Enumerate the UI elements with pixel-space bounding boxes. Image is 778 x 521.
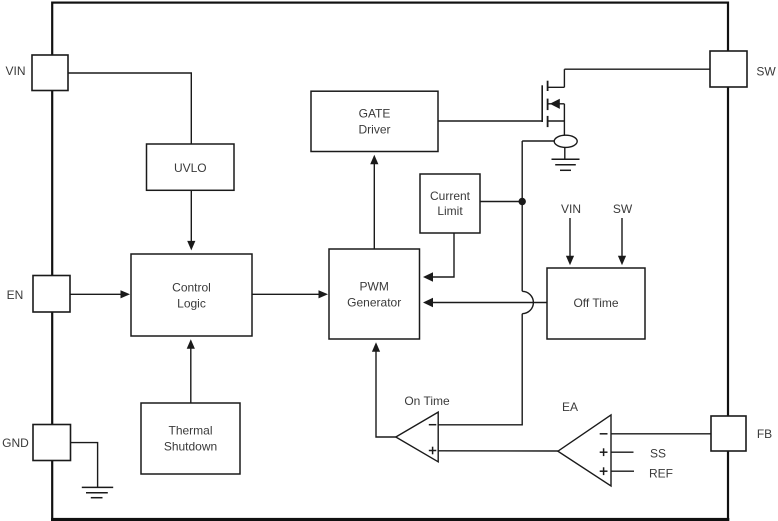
pin EN: [7, 276, 70, 313]
svg-text:EN: EN: [7, 288, 24, 302]
op-amp EA: [558, 415, 611, 486]
wire current source to ground: [564, 147, 566, 159]
svg-text:PWM: PWM: [360, 279, 389, 293]
pin FB: [711, 416, 772, 451]
svg-text:Current: Current: [430, 189, 471, 203]
comparator On Time: [396, 412, 438, 462]
pin VIN: [5, 55, 68, 91]
svg-text:SW: SW: [756, 65, 776, 79]
wire On Time output to PWM Generator: [372, 342, 396, 437]
wire Control Logic to PWM Generator: [252, 290, 328, 298]
block PWM Generator: [329, 249, 420, 339]
svg-text:REF: REF: [649, 467, 673, 481]
svg-text:UVLO: UVLO: [174, 161, 207, 175]
wire SS input: [611, 451, 634, 453]
ground symbol at current source: [552, 159, 580, 170]
svg-text:EA: EA: [562, 400, 578, 414]
wire PWM Generator to GATE Driver: [370, 155, 378, 249]
wire Q1 drain to SW pin: [564, 68, 710, 70]
wire UVLO to Control Logic: [187, 190, 195, 250]
svg-text:VIN: VIN: [561, 202, 581, 216]
svg-text:Shutdown: Shutdown: [164, 440, 217, 454]
wire EA output to On Time plus input: [438, 450, 558, 452]
wire EA minus input to FB pin: [611, 433, 711, 435]
svg-text:On Time: On Time: [404, 394, 450, 408]
block Control Logic: [131, 254, 252, 336]
svg-text:VIN: VIN: [5, 64, 25, 78]
wire EN to Control Logic: [70, 290, 130, 298]
wire VIN label to Off Time: [566, 218, 574, 265]
wire Current Limit to junction node: [480, 201, 522, 203]
wire GND to ground: [71, 443, 98, 488]
svg-text:Logic: Logic: [177, 296, 206, 310]
block GATE Driver: [311, 91, 438, 151]
junction node dot: [519, 198, 526, 205]
wire Off Time to PWM Generator: [423, 298, 547, 308]
wire REF input: [611, 470, 634, 472]
wire SW label to Off Time: [618, 218, 626, 265]
current source I1: [554, 135, 577, 147]
block Thermal Shutdown: [141, 403, 240, 474]
svg-text:Off Time: Off Time: [573, 296, 618, 310]
svg-text:SS: SS: [650, 447, 666, 461]
svg-text:Generator: Generator: [347, 295, 401, 309]
svg-text:GATE: GATE: [359, 107, 391, 121]
block Off Time: [547, 268, 645, 339]
wire Thermal Shutdown to Control Logic: [187, 339, 195, 403]
block UVLO: [147, 144, 235, 190]
wire current source sense branch: [522, 140, 554, 142]
wire VIN pin to UVLO: [68, 73, 191, 144]
wire Current Limit to PWM Generator: [423, 233, 454, 282]
svg-text:Limit: Limit: [437, 204, 463, 218]
svg-text:Driver: Driver: [359, 123, 391, 137]
svg-text:FB: FB: [757, 427, 772, 441]
svg-text:Control: Control: [172, 280, 211, 294]
wire sense line down with hop over Off Time wire: [438, 141, 533, 425]
svg-text:SW: SW: [613, 202, 633, 216]
block Current Limit: [420, 174, 480, 233]
svg-text:Thermal: Thermal: [168, 424, 212, 438]
pin SW: [710, 51, 776, 87]
transistor Q1: [542, 69, 564, 135]
ground symbol at GND: [82, 487, 113, 497]
transistor Q1 gate lead: [438, 120, 542, 122]
svg-text:GND: GND: [2, 436, 29, 450]
pin GND: [2, 425, 70, 461]
